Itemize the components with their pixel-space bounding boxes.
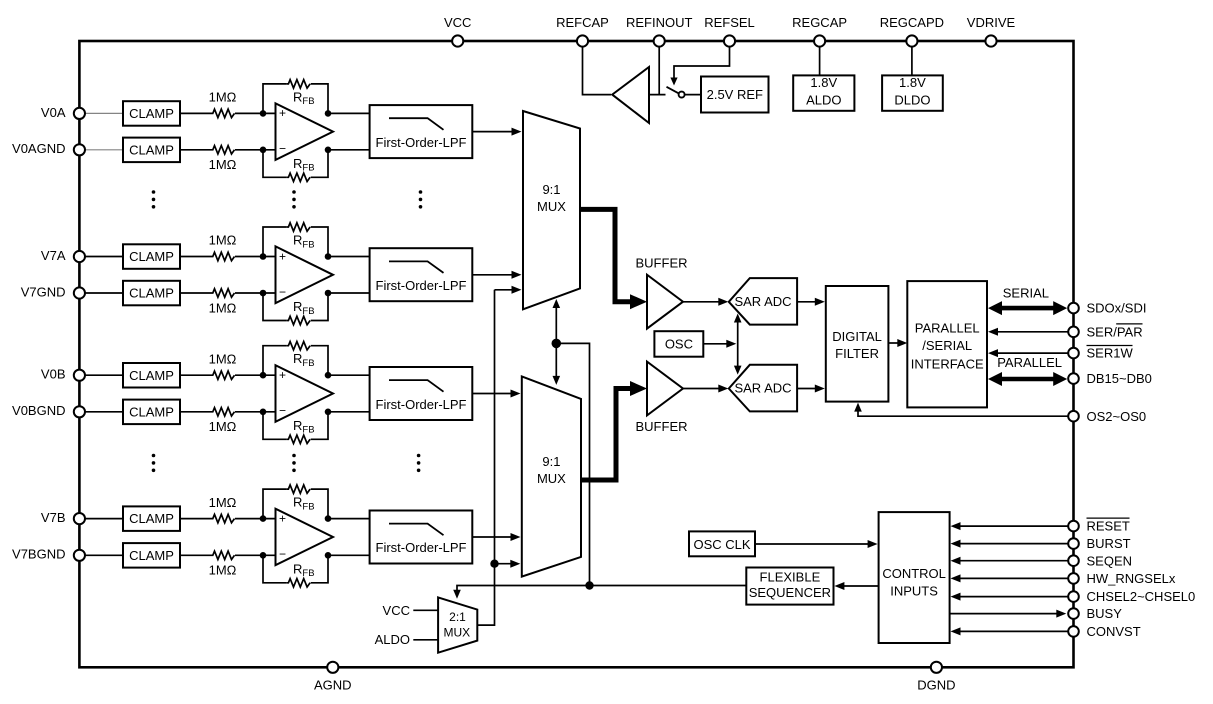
block DIGITAL FILTER	[826, 286, 889, 402]
wire OSC CLK to control inputs	[755, 543, 870, 545]
svg-text:CLAMP: CLAMP	[129, 404, 174, 419]
pin HW_RNGSELx	[1068, 573, 1079, 584]
junction node (feedback lower)	[325, 409, 332, 416]
clamp block (V7A)	[123, 244, 180, 268]
feedback loop upper with resistor RFB	[263, 346, 287, 376]
svg-text:FILTER: FILTER	[835, 346, 879, 361]
wire op-amp outputs to LPF	[328, 374, 370, 376]
svg-text:CONTROL: CONTROL	[882, 566, 946, 581]
svg-text:REFSEL: REFSEL	[704, 15, 755, 30]
wire LPF output to 9:1 MUX	[472, 131, 513, 133]
pin V7GND	[74, 287, 85, 298]
svg-text:MUX: MUX	[443, 626, 470, 640]
pin V7A	[74, 251, 85, 262]
svg-text:DIGITAL: DIGITAL	[832, 329, 882, 344]
clamp block (V7B)	[123, 506, 180, 531]
svg-text:MUX: MUX	[537, 199, 566, 214]
svg-text:ALDO: ALDO	[375, 632, 410, 647]
pin REFCAP	[577, 35, 588, 46]
wire op-amp outputs to LPF	[328, 112, 370, 114]
wire clamp to resistor (lower)	[180, 411, 211, 413]
wire OS2~OS0 to digital filter	[858, 410, 1068, 416]
junction node 2:1 MUX output	[490, 560, 498, 568]
svg-text:DLDO: DLDO	[894, 93, 930, 108]
wire REFINOUT down to switch node	[658, 46, 660, 95]
resistor 1M ohm (upper)	[211, 514, 235, 522]
clamp block (V0B)	[123, 363, 180, 388]
ellipsis (repeated channels, group B)	[152, 454, 156, 458]
svg-text:V0BGND: V0BGND	[12, 403, 65, 418]
wire OSC to SAR clock line	[703, 343, 728, 345]
svg-text:1MΩ: 1MΩ	[209, 300, 237, 315]
svg-text:First-Order-LPF: First-Order-LPF	[376, 278, 467, 293]
junction node (op-amp - input)	[260, 552, 267, 559]
wire digital filter to interface	[888, 342, 899, 344]
junction node (feedback upper)	[325, 253, 332, 260]
wire resistor to op-amp - input	[235, 292, 276, 294]
pin REGCAPD	[906, 35, 917, 46]
wire REFSEL to switch arrow	[674, 46, 730, 78]
wire clamp to resistor	[180, 374, 211, 376]
overline SER1W	[1087, 345, 1133, 347]
wire clamp to resistor	[180, 112, 211, 114]
feedback loop lower with resistor RFB	[263, 293, 287, 321]
pin REFINOUT	[654, 35, 665, 46]
feedback loop upper with resistor RFB	[263, 84, 287, 114]
pin V0BGND	[74, 406, 85, 417]
svg-text:DGND: DGND	[917, 678, 955, 693]
junction node (feedback lower)	[325, 552, 332, 559]
wire buffer to SAR ADC (upper)	[683, 301, 719, 303]
wire control pin input	[958, 577, 1069, 579]
svg-text:BUSY: BUSY	[1087, 606, 1123, 621]
junction node (op-amp + input)	[260, 110, 267, 117]
pin VDRIVE	[985, 35, 996, 46]
svg-text:CLAMP: CLAMP	[129, 142, 174, 157]
svg-text:PARALLEL: PARALLEL	[915, 321, 980, 336]
wire buffer to SAR ADC (lower)	[683, 388, 719, 390]
svg-text:9:1: 9:1	[542, 182, 560, 197]
svg-text:SAR ADC: SAR ADC	[734, 381, 791, 396]
wire clamp to resistor	[180, 256, 211, 258]
svg-text:1.8V: 1.8V	[899, 75, 926, 90]
svg-text:First-Order-LPF: First-Order-LPF	[376, 397, 467, 412]
svg-text:CONVST: CONVST	[1087, 624, 1141, 639]
wire pin V0B to clamp	[79, 374, 123, 376]
pin DB15~DB0	[1068, 373, 1079, 384]
pin BUSY	[1068, 608, 1079, 619]
svg-text:CHSEL2~CHSEL0: CHSEL2~CHSEL0	[1087, 589, 1196, 604]
svg-text:2.5V REF: 2.5V REF	[707, 87, 763, 102]
bus 9:1 MUX (upper) output to buffer	[580, 209, 631, 301]
pin V0AGND	[74, 144, 85, 155]
clamp block (V0BGND)	[123, 400, 180, 425]
junction node between MUXes	[552, 339, 562, 349]
block OSC	[654, 331, 703, 357]
switch blade REFSEL	[667, 87, 680, 94]
feedback loop lower with resistor RFB	[263, 555, 287, 583]
svg-text:First-Order-LPF: First-Order-LPF	[376, 135, 467, 150]
svg-text:V0A: V0A	[41, 105, 66, 120]
wire control pin input	[958, 560, 1069, 562]
wire REFCAP to reference buffer output	[583, 46, 612, 95]
svg-text:V7GND: V7GND	[21, 284, 66, 299]
ellipsis (repeated channels, group A)	[152, 190, 156, 194]
pin SER1W	[1068, 348, 1079, 359]
svg-text:SAR ADC: SAR ADC	[734, 294, 791, 309]
op-amp reference buffer	[612, 67, 649, 123]
block 1.8V ALDO	[793, 75, 854, 110]
block First-Order-LPF (V0B/V0BGND)	[370, 367, 473, 420]
wire OSC clock to SAR ADCs (double arrow)	[737, 320, 739, 368]
svg-text:−: −	[279, 547, 286, 561]
wire clamp to resistor (lower)	[180, 554, 211, 556]
wire pin V7A to clamp	[79, 256, 123, 258]
wire resistor to op-amp - input	[235, 149, 276, 151]
svg-text:+: +	[279, 249, 286, 263]
svg-text:V7A: V7A	[41, 248, 66, 263]
svg-text:9:1: 9:1	[542, 454, 560, 469]
feedback loop lower with resistor RFB	[263, 412, 287, 440]
svg-text:V7B: V7B	[41, 510, 66, 525]
wire MUX node to sequencer line	[556, 343, 589, 585]
svg-text:CLAMP: CLAMP	[129, 106, 174, 121]
resistor 1M ohm (upper)	[211, 371, 235, 379]
junction node (op-amp + input)	[260, 372, 267, 379]
wire buffer input to switch	[649, 94, 666, 96]
resistor 1M ohm (lower)	[211, 146, 235, 154]
op-amp difference amplifier (V0B/V0BGND)	[276, 365, 334, 422]
pin REGCAP	[814, 35, 825, 46]
svg-text:CLAMP: CLAMP	[129, 548, 174, 563]
resistor 1M ohm (lower)	[211, 408, 235, 416]
wire pin V0A to clamp	[79, 112, 123, 114]
junction node (op-amp + input)	[260, 515, 267, 522]
clamp block (V7BGND)	[123, 543, 180, 568]
svg-text:VDRIVE: VDRIVE	[967, 15, 1016, 30]
svg-text:1MΩ: 1MΩ	[209, 419, 237, 434]
junction node (op-amp - input)	[260, 290, 267, 297]
svg-text:OSC: OSC	[665, 336, 693, 351]
block 2.5V REF	[701, 77, 769, 113]
block 1.8V DLDO	[882, 75, 943, 110]
overline RESET	[1087, 517, 1130, 519]
svg-text:1MΩ: 1MΩ	[209, 563, 237, 578]
svg-text:V7BGND: V7BGND	[12, 547, 65, 562]
wire SAR ADC (lower) to digital filter	[797, 388, 817, 390]
block SAR ADC (lower)	[729, 365, 797, 412]
wire LPF output to 9:1 MUX	[472, 536, 512, 538]
block SAR ADC (upper)	[729, 278, 797, 325]
svg-text:OS2~OS0: OS2~OS0	[1087, 409, 1147, 424]
block FLEXIBLE SEQUENCER	[746, 568, 833, 605]
junction node (op-amp - input)	[260, 409, 267, 416]
svg-text:/SERIAL: /SERIAL	[922, 338, 972, 353]
wire SER/PAR input	[996, 331, 1068, 333]
pin V0A	[74, 108, 85, 119]
svg-text:RESET: RESET	[1087, 519, 1130, 534]
block 9:1 MUX (upper)	[523, 111, 580, 309]
svg-text:ALDO: ALDO	[806, 93, 841, 108]
svg-text:SDOx/SDI: SDOx/SDI	[1087, 301, 1147, 316]
wire resistor to op-amp + input	[235, 374, 276, 376]
block 9:1 MUX (lower)	[522, 376, 581, 576]
wire SAR ADC (upper) to digital filter	[797, 301, 817, 303]
svg-text:INPUTS: INPUTS	[890, 583, 938, 598]
op-amp difference amplifier (V7A/V7GND)	[276, 246, 334, 303]
wire resistor to op-amp - input	[235, 411, 276, 413]
junction node sequencer line	[585, 581, 593, 589]
pin BURST	[1068, 538, 1079, 549]
pin SEQEN	[1068, 555, 1079, 566]
pin RESET	[1068, 521, 1079, 532]
junction node (feedback lower)	[325, 147, 332, 154]
bus SERIAL (SDOx/SDI)	[998, 306, 1057, 311]
feedback loop upper with resistor RFB	[263, 227, 287, 257]
wire control pin input	[958, 543, 1069, 545]
svg-text:First-Order-LPF: First-Order-LPF	[376, 540, 467, 555]
clamp block (V7GND)	[123, 281, 180, 306]
svg-text:SER/PAR: SER/PAR	[1087, 324, 1143, 339]
wire control pin input	[958, 596, 1069, 598]
wire resistor to op-amp + input	[235, 112, 276, 114]
block PARALLEL/SERIAL INTERFACE	[907, 281, 987, 407]
block CONTROL INPUTS	[879, 512, 950, 643]
svg-text:BUFFER: BUFFER	[636, 419, 688, 434]
svg-text:VCC: VCC	[444, 15, 471, 30]
svg-text:SER1W: SER1W	[1087, 346, 1134, 361]
pin V7B	[74, 513, 85, 524]
wire pin V0AGND to clamp	[79, 149, 123, 151]
wire sequencer line to 2:1 MUX select	[457, 586, 746, 592]
chip boundary	[79, 41, 1073, 667]
pin CHSEL2~CHSEL0	[1068, 591, 1079, 602]
wire pin V7BGND to clamp	[79, 554, 123, 556]
pin V7BGND	[74, 550, 85, 561]
svg-text:V0B: V0B	[41, 367, 66, 382]
svg-text:BUFFER: BUFFER	[636, 256, 688, 271]
resistor 1M ohm (upper)	[211, 109, 235, 117]
op-amp difference amplifier (V7B/V7BGND)	[276, 509, 334, 566]
wire REGCAP to ALDO	[819, 46, 821, 75]
wire switch to 2.5V REF	[684, 94, 701, 96]
svg-text:SERIAL: SERIAL	[1003, 286, 1049, 301]
bus 9:1 MUX (lower) output to buffer	[581, 389, 631, 481]
svg-text:HW_RNGSELx: HW_RNGSELx	[1087, 571, 1176, 586]
svg-text:PARALLEL: PARALLEL	[997, 355, 1062, 370]
resistor 1M ohm (upper)	[211, 252, 235, 260]
wire SER1W input	[996, 352, 1068, 354]
svg-text:REFCAP: REFCAP	[556, 15, 609, 30]
svg-text:SEQUENCER: SEQUENCER	[749, 585, 831, 600]
svg-text:+: +	[279, 368, 286, 382]
svg-text:1MΩ: 1MΩ	[209, 233, 237, 248]
wire MUX interconnect (double arrow)	[555, 306, 557, 379]
svg-text:1.8V: 1.8V	[810, 75, 837, 90]
feedback loop lower with resistor RFB	[263, 150, 287, 178]
svg-text:FLEXIBLE: FLEXIBLE	[760, 569, 821, 584]
svg-text:−: −	[279, 404, 286, 418]
wire resistor to op-amp - input	[235, 554, 276, 556]
wire op-amp outputs to LPF	[328, 256, 370, 258]
svg-text:DB15~DB0: DB15~DB0	[1087, 371, 1152, 386]
wire control inputs to flexible sequencer	[842, 585, 879, 587]
wire pin V7B to clamp	[79, 518, 123, 520]
block 2:1 MUX	[438, 597, 477, 652]
junction node (feedback upper)	[325, 110, 332, 117]
wire pin V7GND to clamp	[79, 292, 123, 294]
svg-text:OSC CLK: OSC CLK	[693, 537, 750, 552]
block First-Order-LPF (V7B/V7BGND)	[370, 511, 473, 564]
svg-text:+: +	[279, 511, 286, 525]
wire control pin input	[958, 525, 1069, 527]
wire resistor to op-amp + input	[235, 256, 276, 258]
junction node (op-amp - input)	[260, 147, 267, 154]
wire op-amp outputs to LPF	[328, 518, 370, 520]
wire VCC to 2:1 MUX	[413, 609, 438, 611]
svg-text:VCC: VCC	[383, 603, 410, 618]
op-amp BUFFER (upper)	[647, 275, 683, 329]
svg-text:MUX: MUX	[537, 471, 566, 486]
block OSC CLK	[689, 531, 755, 556]
pin V0B	[74, 370, 85, 381]
wire REGCAPD to DLDO	[911, 46, 913, 75]
svg-text:1MΩ: 1MΩ	[209, 495, 237, 510]
overline PAR (SER/PAR)	[1116, 323, 1142, 325]
pin SDOx/SDI	[1068, 303, 1079, 314]
wire clamp to resistor (lower)	[180, 149, 211, 151]
wire clamp to resistor	[180, 518, 211, 520]
wire BUSY output	[950, 613, 1059, 615]
wire node to lower 9:1 MUX	[495, 563, 514, 565]
block First-Order-LPF (V0A/V0AGND)	[370, 105, 473, 158]
svg-text:CLAMP: CLAMP	[129, 249, 174, 264]
wire control pin input	[958, 630, 1069, 632]
pin CONVST	[1068, 626, 1079, 637]
pin REFSEL	[724, 35, 735, 46]
pin OS2~OS0	[1068, 411, 1079, 422]
svg-text:+: +	[279, 106, 286, 120]
svg-text:AGND: AGND	[314, 678, 352, 693]
resistor 1M ohm (lower)	[211, 289, 235, 297]
svg-text:CLAMP: CLAMP	[129, 368, 174, 383]
switch contact circle	[679, 92, 685, 98]
pin SER/PAR	[1068, 327, 1079, 338]
svg-text:1MΩ: 1MΩ	[209, 157, 237, 172]
block First-Order-LPF (V7A/V7GND)	[370, 248, 473, 301]
svg-text:1MΩ: 1MΩ	[209, 351, 237, 366]
wire ALDO to 2:1 MUX	[413, 639, 438, 641]
op-amp BUFFER (lower)	[647, 362, 683, 416]
wire pin V0BGND to clamp	[79, 411, 123, 413]
svg-text:1MΩ: 1MΩ	[209, 90, 237, 105]
wire 2:1 MUX output to 9:1 MUX reference inputs	[477, 290, 494, 625]
clamp block (V0AGND)	[123, 138, 180, 163]
svg-text:V0AGND: V0AGND	[12, 141, 65, 156]
pin AGND	[327, 662, 338, 673]
svg-text:−: −	[279, 285, 286, 299]
bus PARALLEL (DB15~DB0)	[998, 377, 1057, 382]
pin VCC	[452, 35, 463, 46]
svg-text:−: −	[279, 142, 286, 156]
junction node (feedback upper)	[325, 515, 332, 522]
junction node (feedback lower)	[325, 290, 332, 297]
svg-text:2:1: 2:1	[449, 610, 466, 624]
svg-text:INTERFACE: INTERFACE	[911, 356, 984, 371]
wire LPF output to 9:1 MUX	[472, 393, 512, 395]
svg-text:CLAMP: CLAMP	[129, 511, 174, 526]
svg-text:CLAMP: CLAMP	[129, 286, 174, 301]
wire clamp to resistor (lower)	[180, 292, 211, 294]
clamp block (V0A)	[123, 101, 180, 126]
feedback loop upper with resistor RFB	[263, 489, 287, 518]
svg-text:SEQEN: SEQEN	[1087, 553, 1133, 568]
junction node (feedback upper)	[325, 372, 332, 379]
svg-text:REGCAP: REGCAP	[792, 15, 847, 30]
wire resistor to op-amp + input	[235, 518, 276, 520]
resistor 1M ohm (lower)	[211, 551, 235, 559]
wire LPF output to 9:1 MUX	[472, 274, 513, 276]
junction node (op-amp + input)	[260, 253, 267, 260]
svg-text:BURST: BURST	[1087, 536, 1131, 551]
op-amp difference amplifier (V0A/V0AGND)	[276, 103, 334, 160]
pin DGND	[931, 662, 942, 673]
svg-text:REGCAPD: REGCAPD	[880, 15, 944, 30]
svg-text:REFINOUT: REFINOUT	[626, 15, 693, 30]
